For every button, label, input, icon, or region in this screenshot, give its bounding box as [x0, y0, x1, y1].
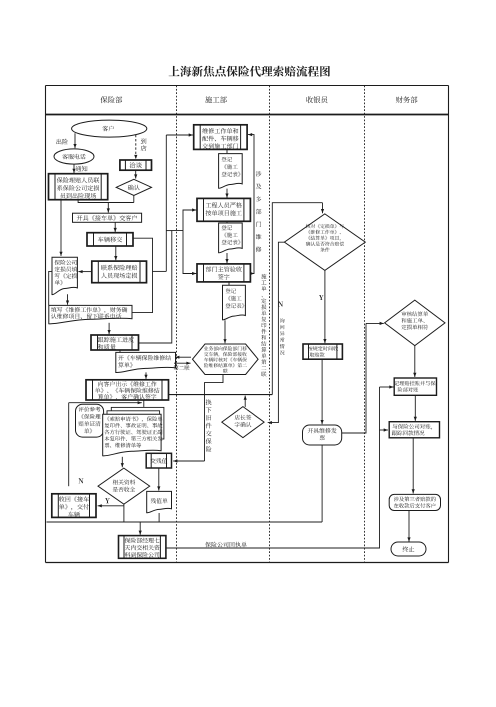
label Y bold cashier: [319, 295, 324, 300]
rounded 评价参考《保险理赔单证清单》: [76, 404, 104, 437]
process 保险理赔人员联系保险公司定损员到出险现场: [49, 174, 108, 200]
arrow 记账->对账: [414, 395, 416, 421]
arrow 洽谈->确认: [135, 170, 137, 178]
label 保险公司回执单: [205, 542, 211, 548]
label 出险: [56, 139, 61, 145]
arrow 接车单->车辆移交: [114, 222, 116, 232]
arrow 核对diamond->按规定收款: [324, 270, 326, 343]
arrow 结算单doc->向客户出示box: [145, 372, 147, 379]
double arrow 结算单doc<->hexagon upper: [175, 356, 191, 358]
process 部门主管验收签字: [197, 264, 250, 282]
wire 店长签字->主流程线: [244, 396, 246, 407]
arrow 审核->记账: [414, 346, 416, 377]
box 开具《接车单》交客户: [73, 213, 142, 222]
vertical label 换下旧件交保险: [206, 399, 212, 405]
label 通知: [75, 166, 81, 172]
arrow stack->资料收全diamond: [121, 457, 123, 468]
wire 主流程横线: [169, 394, 272, 396]
lane label 施工部: [205, 96, 212, 103]
wire 跟踪施工 right to v2: [139, 231, 184, 343]
arrow 支付客户->终止: [408, 511, 410, 542]
wire 车辆移交->维修工作单doc: [132, 238, 153, 312]
rounded 开具维修发票: [303, 425, 342, 445]
arrow 联系定损->定损单doc: [78, 271, 91, 273]
arrow box1->doc1: [226, 149, 228, 153]
process 跟踪施工进度和质量: [91, 335, 139, 350]
lane label 保险部: [101, 96, 108, 103]
arrow 保险理赔box->定损单doc: [60, 200, 62, 256]
wire collection line bottom: [47, 521, 323, 523]
vertical label 施工单定损单复印件和结算单第二联: [261, 274, 266, 279]
arrow 跟踪施工->结算单doc: [119, 350, 121, 352]
document stack 索赔申请书等资料: [111, 407, 164, 439]
process 工程人员严格按单项目施工: [197, 198, 250, 221]
hexagon 移交车辆结算单第二联: [193, 344, 259, 375]
wire hexagon->交残值 换下旧件: [205, 375, 224, 462]
wire v1 up to 施工部box1: [165, 135, 167, 271]
arrow 客服电话->通知现场: [73, 164, 75, 173]
lane label 财务部: [396, 96, 403, 103]
arrow 维修工作单doc->跟踪施工: [108, 323, 110, 334]
document 登记《施工登记表》 2: [219, 223, 243, 253]
wire 向客户出示->单据stack: [143, 400, 145, 407]
arrow 车辆移交->联系定损: [115, 246, 117, 260]
lane separator 2: [269, 86, 271, 563]
wire N-loop return: [68, 403, 70, 487]
label 到店: [141, 138, 147, 144]
arrow doc3->hexagon: [224, 320, 226, 343]
document 残值单: [147, 491, 172, 512]
double arrow 结算单doc->hexagon lower: [174, 362, 191, 364]
wire 开具发票->collection: [321, 445, 323, 522]
label Y bold: [105, 498, 110, 503]
lane label 收银员: [306, 96, 313, 103]
arrow 定损单doc->维修工作单doc: [67, 294, 69, 305]
document 保险公司定损员填写《定损单》: [52, 257, 77, 294]
wire 回执单 to finance: [166, 387, 380, 548]
diamond 核对定损单维修工作单结算单确认赔偿: [284, 214, 365, 271]
arrow 换下旧件->交残值: [173, 460, 204, 462]
label N bold 资料不全: [78, 478, 83, 483]
lane separator 3: [364, 86, 366, 563]
wire v3 保险部监督施工: [183, 210, 196, 274]
arrow doc1->box2: [226, 189, 228, 198]
dashed arrow 客户->洽谈: [135, 135, 137, 159]
wire merge to 接车单: [78, 200, 134, 203]
wire 残值单->collection: [158, 513, 160, 522]
lane separator 1: [176, 86, 178, 563]
process 车辆移交: [87, 233, 133, 246]
wire 开具发票->财务审核: [342, 323, 366, 433]
wire 去收银台: [272, 203, 322, 395]
ellipse 客户: [72, 120, 147, 137]
diamond 确认: [116, 179, 151, 195]
process 交残值: [146, 453, 171, 468]
vertical label 询问异常情况: [280, 318, 285, 323]
arrow box3->doc3: [228, 282, 230, 285]
label N bold cashier: [278, 301, 283, 306]
wire loop 涉及多部门维修: [248, 135, 254, 274]
wire 定损单doc left stub: [49, 271, 52, 305]
box 记理赔挂账并与保险部对账: [394, 378, 436, 395]
label 第二联: [174, 365, 179, 370]
diamond 店长签字确认: [222, 407, 264, 438]
box 与保险公司对账跟踪回款情况: [389, 422, 439, 438]
document 开《车辆保险维修结算单》: [116, 352, 176, 372]
process 联系保险理赔人员现场定损: [92, 261, 147, 283]
arrow doc2->box3: [226, 253, 228, 263]
table outer border: [46, 85, 449, 87]
terminal 终止: [391, 542, 426, 556]
process 向客户出示维修工作单结算单客户确认签字: [86, 380, 169, 400]
rounded 涉及第三者赔款的在收款后支付客户: [389, 494, 440, 510]
wire N 询问异常情况: [268, 242, 285, 422]
process 洽谈: [120, 160, 152, 170]
document 登记《施工登记表》 1: [219, 154, 243, 189]
process 按规定时间收取赔款: [303, 344, 342, 359]
arrow 按规定收款->开具发票: [321, 359, 323, 424]
wire branch to 施工部box1: [153, 270, 167, 272]
document 填写《维修工作单》财务确认维修项目留下联系电话: [49, 305, 132, 323]
process 保险部经理七天内交相关资料到保险公司: [119, 536, 166, 559]
ellipse 客服电话: [54, 149, 94, 164]
diamond 相关资料是否收全: [98, 468, 150, 504]
title: [169, 66, 180, 76]
arrow 对账->支付客户: [412, 438, 414, 494]
vertical label 涉及多部门维修: [256, 171, 262, 177]
arrow 交残值->残值单doc: [158, 468, 160, 491]
document 登记《施工登记表》 3: [223, 285, 246, 320]
process 维修工作单和配件车辆移交到施工部门: [194, 125, 247, 150]
wire diamond->收回接车单 and down: [123, 504, 125, 522]
process 收回《接车单》交付车辆: [52, 494, 96, 518]
diamond 审核结算单施工单定损单相符: [385, 300, 445, 346]
arrow 客户->客服电话: [74, 133, 76, 148]
arrow box2->doc2: [226, 221, 228, 223]
